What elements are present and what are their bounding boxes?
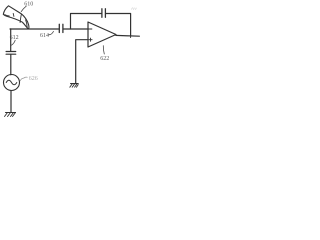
wire feedback left: [71, 14, 102, 30]
capacitor 614: [59, 24, 63, 32]
noise mark top right: [132, 8, 137, 10]
op-amp 622: [88, 22, 116, 47]
ground (op-amp): [70, 84, 78, 88]
wire cap to opamp: [63, 28, 88, 30]
label 614 leader: [49, 31, 54, 34]
svg-text:626: 626: [29, 76, 38, 82]
svg-text:610: 610: [24, 1, 33, 7]
label 612 leader: [12, 40, 16, 45]
wire left vertical: [10, 29, 12, 51]
label 610 leader: [21, 6, 26, 11]
label 626 leader: [20, 77, 27, 81]
ground (bottom): [5, 113, 16, 117]
svg-text:612: 612: [10, 35, 19, 41]
wire: [10, 54, 12, 74]
wire plus input to ground: [76, 40, 88, 83]
wire feedback right: [106, 14, 131, 37]
finger 610: [3, 6, 29, 29]
junction stub: [130, 36, 132, 38]
wire output: [116, 34, 140, 37]
wire: [10, 91, 12, 113]
AC source 626: [4, 75, 20, 91]
svg-text:614: 614: [40, 33, 49, 39]
svg-text:622: 622: [100, 56, 109, 62]
capacitor feedback: [102, 9, 106, 17]
wire main horizontal: [10, 28, 59, 30]
capacitor 612: [6, 52, 16, 55]
label 622 leader: [103, 46, 104, 54]
